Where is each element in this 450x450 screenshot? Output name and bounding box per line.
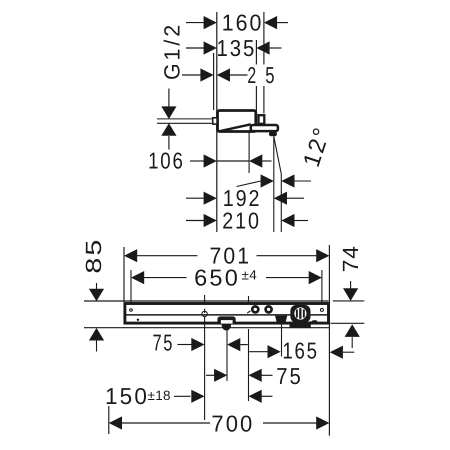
center mark circle [202, 311, 207, 316]
eco pill [312, 320, 317, 323]
dimension 135 [186, 47, 204, 49]
dimension 75 second [206, 374, 216, 376]
svg-text:±18: ±18 [148, 388, 171, 403]
svg-text:150: 150 [105, 383, 149, 409]
pipe lines [157, 118, 212, 120]
extension line 160 right [263, 12, 265, 65]
tub outlet [217, 316, 235, 324]
thermostat bar body [125, 304, 329, 324]
knob lower lip [290, 322, 311, 328]
spout body [218, 111, 256, 132]
extension line shower outlet [248, 296, 250, 303]
select button ring 1 [252, 306, 258, 312]
screw right [320, 308, 323, 311]
svg-text:135: 135 [217, 35, 257, 61]
extension line screw right [321, 270, 323, 303]
extension line outlet center [248, 132, 250, 173]
bar mid line [126, 314, 328, 316]
svg-text:700: 700 [211, 410, 254, 436]
dimension 165 [249, 351, 268, 353]
extension line bar top right [333, 300, 365, 302]
svg-text:5: 5 [265, 62, 275, 88]
svg-text:75: 75 [153, 329, 175, 355]
reference line 12 degree tilt [274, 137, 282, 233]
leader 85 arrows [96, 283, 98, 289]
svg-text:75: 75 [276, 363, 303, 389]
spout nub [269, 132, 277, 137]
screw left [130, 309, 133, 312]
extension line bar bottom right [331, 322, 365, 324]
shelf top line [84, 300, 329, 302]
leader 74 arrows [350, 281, 352, 289]
extension line tile face [213, 53, 215, 110]
extension line outlet center bottom [226, 329, 228, 381]
svg-text:±4: ±4 [242, 267, 258, 282]
spout wall tab [213, 118, 217, 124]
dimension 650 plus-minus 4 [131, 271, 144, 284]
svg-text:G1/2: G1/2 [159, 22, 184, 80]
dimension 700 [109, 416, 122, 429]
spout arm [251, 125, 278, 131]
small tick left of buttons [247, 311, 250, 313]
extension line screw left [130, 270, 132, 303]
select button ring 2 [266, 306, 272, 312]
extension line bar right [328, 245, 330, 436]
svg-text:74: 74 [338, 245, 363, 272]
svg-text:650: 650 [194, 265, 240, 291]
temperature knob [290, 305, 310, 323]
extension line handle center [204, 295, 206, 303]
svg-text:210: 210 [222, 208, 261, 234]
leader G1/2 with arrows [168, 89, 170, 108]
dimension 192 [186, 197, 204, 199]
svg-text:160: 160 [222, 10, 264, 36]
spout bracket [259, 115, 265, 124]
spout internal diagonal [220, 124, 251, 131]
extension line 700 left [108, 406, 110, 434]
svg-text:165: 165 [282, 337, 319, 363]
extension line spout lever [281, 325, 283, 357]
extension line wall face (left) [216, 12, 218, 232]
extension line spout tip vertical [273, 137, 275, 233]
dimension 701 [124, 249, 137, 262]
handle lever black [275, 316, 287, 323]
extension line bar left [123, 247, 125, 302]
dimension 210 [186, 220, 204, 222]
svg-text:2: 2 [247, 62, 256, 88]
extension line under-bar [84, 327, 329, 329]
dimension 160 [186, 22, 204, 24]
angle dimension arrows 12 deg [261, 174, 274, 187]
svg-text:85: 85 [81, 238, 106, 274]
dimension 25 [182, 74, 201, 76]
svg-text:106: 106 [148, 147, 185, 173]
screw dot lower [137, 319, 139, 321]
extension line 135 right [255, 40, 257, 65]
